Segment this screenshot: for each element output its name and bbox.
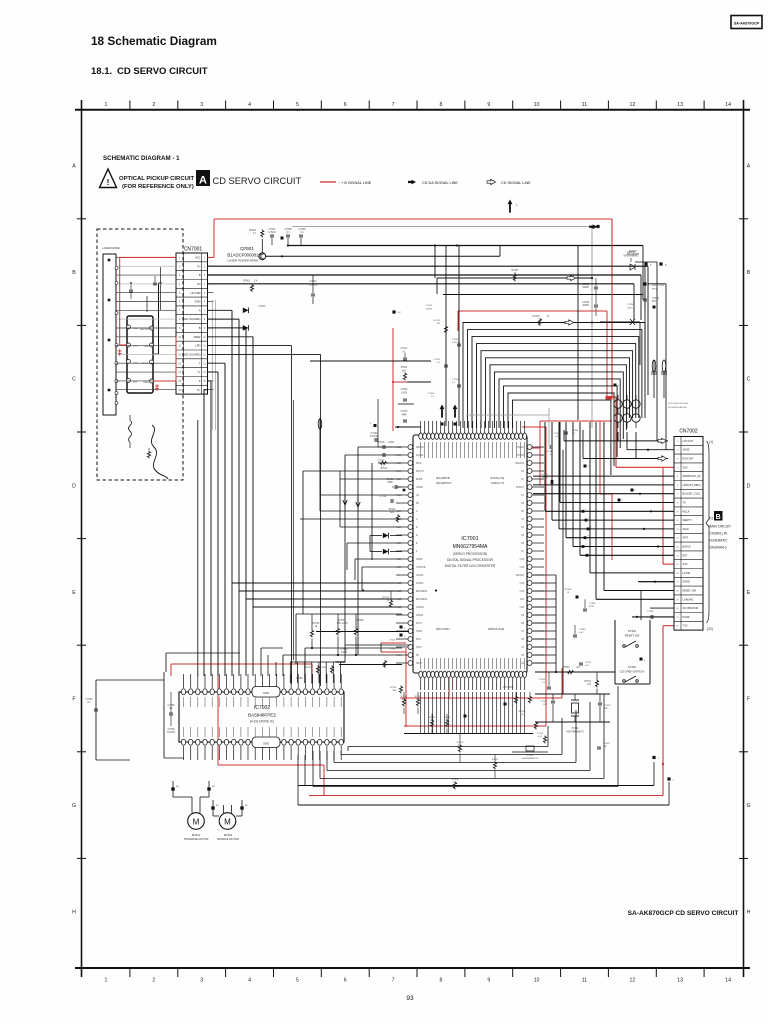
svg-text:C7047: C7047 — [426, 305, 433, 307]
capacitor C7326 — [643, 290, 659, 310]
svg-text:OSCIN: OSCIN — [416, 575, 424, 577]
wire r7207 line — [437, 269, 593, 281]
svg-text:GND: GND — [144, 346, 149, 348]
svg-text:CD SERVO CIRCUIT: CD SERVO CIRCUIT — [117, 66, 208, 77]
svg-text:A: A — [199, 175, 207, 187]
svg-text:C7540: C7540 — [341, 649, 348, 651]
svg-text:1: 1 — [105, 978, 108, 984]
wire Q7601 output line — [266, 244, 500, 257]
svg-text:9: 9 — [487, 102, 490, 108]
svg-text:C7324: C7324 — [627, 304, 634, 306]
red C7544/C7545 — [381, 640, 406, 694]
svg-text:18P: 18P — [604, 708, 608, 710]
svg-text:CD SERVO CIRCUIT: CD SERVO CIRCUIT — [213, 176, 302, 186]
resistor network below chip — [401, 692, 499, 789]
diode D7064 top right — [627, 250, 639, 270]
svg-text:2: 2 — [152, 978, 155, 984]
wire into chip top-left corner — [395, 426, 421, 433]
red mid line — [458, 311, 613, 400]
label CD SERVO CIRCUIT — [213, 176, 302, 186]
svg-text:REGON: REGON — [516, 463, 525, 465]
caps near IC7002 left — [164, 692, 179, 734]
svg-text:470P: 470P — [589, 606, 595, 608]
svg-text:DIGITAL FILTER D/A CONVERTER: DIGITAL FILTER D/A CONVERTER — [445, 564, 496, 568]
svg-text:8: 8 — [439, 978, 442, 984]
svg-text:B: B — [199, 326, 201, 330]
svg-text:LASER POWER DRIVE: LASER POWER DRIVE — [228, 259, 259, 263]
border frame with rulers — [72, 100, 751, 984]
svg-text:VRBP: VRBP — [416, 559, 423, 561]
wire A/B/VREF rows with steps to chip — [208, 306, 403, 676]
svg-text:C7616: C7616 — [310, 281, 317, 283]
svg-text:93: 93 — [406, 995, 414, 1002]
capacitors right of chip — [533, 433, 596, 637]
svg-text:56B: 56B — [392, 690, 396, 692]
svg-text:16V10: 16V10 — [542, 477, 549, 479]
svg-text:R7011: R7011 — [401, 367, 408, 369]
svg-text:C7206: C7206 — [428, 393, 435, 395]
svg-text:G: G — [746, 803, 750, 809]
svg-text:C7359: C7359 — [542, 474, 549, 476]
capacitor C7203 — [370, 433, 379, 442]
svg-text:RESET_SW: RESET_SW — [683, 590, 697, 593]
footer title — [628, 910, 739, 917]
section marker B / to main circuit — [709, 511, 732, 550]
resistor cluster TRV/FO gain — [296, 607, 364, 664]
red loop around IC7002 — [171, 664, 324, 796]
svg-text:3: 3 — [200, 102, 203, 108]
svg-text:TRAVERSE MOTOR: TRAVERSE MOTOR — [184, 837, 209, 841]
svg-text:C7546: C7546 — [389, 649, 396, 651]
svg-text:GND (GUARD): GND (GUARD) — [182, 353, 200, 357]
svg-text:PU: PU — [416, 655, 420, 657]
svg-text:Q7601: Q7601 — [240, 246, 254, 251]
svg-text:1: 1 — [105, 102, 108, 108]
svg-text:M: M — [193, 818, 200, 827]
red bottom bus — [309, 626, 674, 796]
svg-text:RESET SW: RESET SW — [625, 634, 640, 638]
svg-text:C7017: C7017 — [401, 348, 408, 350]
resistor R7601 — [249, 229, 264, 237]
svg-text:CD OPEN SW: CD OPEN SW — [683, 607, 699, 610]
svg-text:R7522: R7522 — [415, 696, 422, 698]
+B red bus top — [214, 219, 674, 564]
svg-text:GND: GND — [263, 691, 269, 695]
red vertical mid right — [404, 427, 546, 726]
svg-text:GND: GND — [263, 742, 269, 746]
svg-text:CTRCKB: CTRCKB — [416, 567, 426, 569]
wire mid horizontals to chip bottom-left — [283, 614, 402, 676]
svg-text:3: 3 — [200, 978, 203, 984]
svg-text:LB1TGH0 LB1TGH0: LB1TGH0 LB1TGH0 — [668, 403, 689, 405]
svg-text:1000P: 1000P — [582, 305, 589, 307]
svg-text:0.018: 0.018 — [401, 393, 407, 395]
svg-text:O13: O13 — [520, 583, 525, 585]
svg-text:DGND: DGND — [683, 581, 690, 584]
svg-text:C7364: C7364 — [554, 433, 561, 435]
svg-text:C7544: C7544 — [389, 640, 396, 642]
page number — [406, 995, 414, 1002]
svg-text:6: 6 — [344, 102, 347, 108]
svg-text:6.3V220: 6.3V220 — [370, 436, 379, 438]
svg-text:C7201: C7201 — [434, 359, 441, 361]
svg-text:CD DA SIGNAL LINE: CD DA SIGNAL LINE — [422, 181, 458, 185]
wire verticals left of chip — [340, 399, 378, 590]
wire nested bottom fan — [313, 686, 618, 787]
svg-text:13: 13 — [677, 102, 683, 108]
svg-text:C7208: C7208 — [582, 302, 589, 304]
wire bottom long buses — [298, 755, 675, 805]
svg-text:B: B — [747, 270, 751, 276]
svg-text:SCHEMATIC: SCHEMATIC — [709, 539, 729, 543]
PD gain cluster — [316, 589, 437, 668]
svg-text:C7514: C7514 — [537, 733, 544, 735]
svg-text:A: A — [747, 164, 751, 170]
svg-text:(SERVO PROCESSOR): (SERVO PROCESSOR) — [453, 552, 487, 556]
svg-text:[39] OVSS1: [39] OVSS1 — [436, 627, 450, 631]
svg-text:R7528: R7528 — [306, 667, 313, 669]
svg-text:R7516: R7516 — [519, 711, 526, 713]
wire crystal bus — [535, 667, 615, 674]
svg-text:VREF: VREF — [193, 335, 201, 339]
svg-text:R7661: R7661 — [243, 281, 250, 283]
pickup flex squiggle — [151, 425, 168, 479]
wire IC7002 upper-left rail — [166, 653, 240, 672]
wire chip-left horizontals — [300, 418, 402, 655]
svg-text:R7012: R7012 — [434, 320, 441, 322]
black square marks row B — [643, 262, 667, 308]
svg-text:A: A — [199, 308, 201, 312]
IC7002 tiny pin labels — [184, 697, 342, 737]
svg-text:B1N CTGEF: B1N CTGEF — [652, 285, 665, 287]
wire LPD row — [208, 346, 304, 684]
red corner join — [600, 421, 612, 560]
svg-text:1000P: 1000P — [426, 309, 433, 311]
svg-text:R7211: R7211 — [389, 509, 396, 511]
svg-text:C7503: C7503 — [603, 743, 610, 745]
wire long verticals into chip top — [435, 246, 578, 427]
svg-text:7: 7 — [392, 978, 395, 984]
capacitor C7606 — [298, 228, 306, 245]
svg-text:1000P: 1000P — [582, 287, 589, 289]
svg-text:4: 4 — [248, 978, 251, 984]
svg-text:CN7002: CN7002 — [679, 429, 698, 435]
svg-text:R7523: R7523 — [401, 696, 408, 698]
svg-text:5.8V: 5.8V — [683, 466, 688, 469]
svg-text:R7534: R7534 — [313, 623, 320, 625]
svg-text:18 Schematic Diagram: 18 Schematic Diagram — [91, 34, 217, 48]
capacitor C7363 in red box — [564, 425, 579, 441]
wire grey top bus — [292, 225, 593, 428]
wire audio rows to CN7002 — [564, 430, 674, 461]
svg-text:PGND: PGND — [683, 616, 690, 619]
svg-text:11: 11 — [582, 978, 587, 984]
red crystal feed — [400, 648, 562, 727]
svg-text:9: 9 — [487, 978, 490, 984]
svg-text:O10: O10 — [520, 607, 525, 609]
svg-text:B: B — [199, 273, 201, 277]
svg-text:HDNTMN08DT3: HDNTMN08DT3 — [566, 731, 584, 734]
svg-text:IC7001: IC7001 — [461, 536, 478, 542]
svg-text:SA-AK870GCP CD SERVO CIRCUIT: SA-AK870GCP CD SERVO CIRCUIT — [628, 910, 739, 917]
pickup internal verticals — [122, 267, 162, 363]
svg-text:R7346: R7346 — [565, 589, 572, 591]
svg-text:C7368: C7368 — [579, 629, 586, 631]
resistor R7514 — [584, 672, 598, 694]
components on +B verticals — [428, 320, 461, 398]
svg-text:: + B SIGNAL LINE: : + B SIGNAL LINE — [339, 181, 372, 185]
svg-text:MECLKP: MECLKP — [140, 329, 150, 331]
svg-text:LD GND: LD GND — [190, 291, 200, 295]
legend: CD signal line — [487, 179, 531, 185]
svg-text:W7EOT: W7EOT — [516, 487, 525, 489]
capacitor C7512 — [579, 662, 592, 667]
svg-text:D: D — [72, 483, 76, 489]
photodetector IC in pickup — [127, 316, 154, 393]
svg-text:R7525: R7525 — [429, 717, 436, 719]
capacitor C7064 — [401, 389, 408, 401]
svg-text:AGND: AGND — [683, 449, 690, 452]
capacitor C7074 — [401, 411, 408, 422]
svg-text:DRVMEN2: DRVMEN2 — [416, 599, 428, 601]
svg-text:O16: O16 — [520, 567, 525, 569]
svg-text:RCH OUT: RCH OUT — [683, 458, 695, 461]
svg-text:10V220: 10V220 — [167, 732, 176, 734]
svg-text:VCC: VCC — [195, 256, 201, 260]
svg-text:R7520: R7520 — [563, 667, 570, 669]
svg-text:E: E — [747, 590, 751, 596]
svg-text:330P: 330P — [387, 482, 393, 484]
svg-text:CD SIGNAL LINE: CD SIGNAL LINE — [501, 181, 531, 185]
svg-text:R7502: R7502 — [492, 759, 499, 761]
svg-text:DRVMEN0: DRVMEN0 — [416, 591, 428, 593]
svg-text:OVSS2 [76]: OVSS2 [76] — [490, 476, 504, 480]
svg-text:DIGITAL SIGNAL PROCESSOR: DIGITAL SIGNAL PROCESSOR — [447, 558, 493, 562]
svg-text:MAIN CIRCUIT: MAIN CIRCUIT — [709, 525, 732, 529]
node junction marks top right — [589, 224, 599, 229]
top right cluster — [600, 246, 667, 399]
svg-text:!: ! — [107, 178, 110, 187]
capacitor C7017 — [401, 348, 408, 360]
svg-text:C7074: C7074 — [401, 411, 408, 413]
switch ST302 cd open switch — [620, 658, 646, 683]
svg-text:[30] ARPFB: [30] ARPFB — [436, 476, 450, 480]
svg-text:2: 2 — [152, 102, 155, 108]
svg-text:H: H — [747, 910, 751, 916]
svg-text:SPINDLE MOTOR: SPINDLE MOTOR — [217, 837, 239, 841]
svg-text:DIV33RGELACI0B: DIV33RGELACI0B — [668, 406, 687, 409]
small parts row at chip left — [370, 423, 377, 427]
motor M7002 spindle — [217, 805, 239, 841]
svg-text:3.3V: 3.3V — [683, 563, 688, 566]
svg-text:XRST: XRST — [416, 663, 423, 665]
IC IC7001 MN6627954MA servo processor — [396, 421, 544, 690]
svg-text:VALD: VALD — [683, 528, 689, 531]
wires pickup to CN7001 — [116, 257, 176, 389]
IC IC7002 BA5948FPE2 driver — [179, 674, 344, 760]
svg-text:50V1: 50V1 — [627, 308, 633, 310]
svg-text:OVDD1: OVDD1 — [416, 607, 425, 609]
svg-text:TX: TX — [683, 502, 686, 505]
svg-text:R7519: R7519 — [457, 742, 464, 744]
motor terminal marks — [171, 781, 248, 816]
wire right edge verticals — [635, 262, 666, 450]
svg-text:12: 12 — [630, 102, 636, 108]
svg-text:C7522: C7522 — [541, 701, 548, 703]
svg-text:5: 5 — [296, 978, 299, 984]
svg-text:SCHEMATIC DIAGRAM - 1: SCHEMATIC DIAGRAM - 1 — [103, 155, 180, 162]
+B arrow top — [508, 200, 518, 213]
svg-text:R7012: R7012 — [381, 468, 388, 470]
IC7001 left pin external labels — [398, 447, 544, 665]
svg-text:LD SW: LD SW — [683, 572, 691, 575]
svg-text:C7366: C7366 — [589, 603, 596, 605]
svg-text:10: 10 — [534, 978, 540, 984]
svg-text:R7536: R7536 — [390, 687, 397, 689]
svg-text:6: 6 — [344, 978, 347, 984]
svg-text:CD OPEN SWITCH: CD OPEN SWITCH — [620, 670, 645, 674]
capacitor C7208 — [582, 294, 598, 316]
svg-text:C7613: C7613 — [259, 306, 266, 308]
svg-text:18.1.: 18.1. — [91, 66, 112, 77]
transistor Q7601 laser power drive — [227, 239, 265, 263]
svg-text:E: E — [72, 590, 76, 596]
PD GAIN resistors right of IC7002 — [503, 686, 546, 743]
red box near chip top — [532, 421, 600, 485]
svg-text:PHG: PHG — [416, 639, 421, 641]
wire nested bus above IC7001 — [463, 316, 645, 475]
svg-text:AVSS2: AVSS2 — [416, 582, 424, 585]
svg-text:(FOR REFERENCE ONLY): (FOR REFERENCE ONLY) — [122, 184, 194, 190]
capacitor C7607 — [268, 228, 276, 245]
svg-text:BDRCK [100]: BDRCK [100] — [488, 627, 504, 631]
svg-text:R7508: R7508 — [452, 779, 459, 781]
svg-text:BLRCK: BLRCK — [683, 546, 692, 549]
svg-text:B: B — [716, 514, 721, 521]
wire left frame of IC7002 — [86, 672, 240, 760]
svg-text:C7538: C7538 — [168, 705, 175, 707]
svg-text:5: 5 — [296, 102, 299, 108]
svg-text:RST: RST — [683, 554, 688, 557]
svg-text:B1ADCF000001: B1ADCF000001 — [227, 253, 259, 258]
connector CN7001 — [176, 247, 208, 395]
capacitor C7047 — [378, 305, 433, 463]
chip right pin stubs — [533, 450, 563, 694]
svg-text:WCLK: WCLK — [683, 510, 690, 513]
svg-text:C7205: C7205 — [452, 379, 459, 381]
svg-text:B: B — [72, 270, 76, 276]
svg-text:LRCK(ST_RBO): LRCK(ST_RBO) — [683, 484, 701, 487]
wire chip bottom pin drops — [404, 692, 533, 734]
svg-text:R7527: R7527 — [339, 620, 346, 622]
svg-text:14: 14 — [725, 978, 731, 984]
svg-text:8: 8 — [439, 102, 442, 108]
svg-text:C7536: C7536 — [168, 729, 175, 731]
svg-text:FOCT: FOCT — [416, 623, 423, 625]
svg-text:12: 12 — [630, 978, 636, 984]
svg-text:IODD2: IODD2 — [416, 615, 424, 617]
svg-text:XT501: XT501 — [527, 755, 534, 757]
motor M7001 traverse — [184, 805, 209, 841]
switch ST301 reset sw — [615, 620, 650, 684]
svg-text:VREF: VREF — [143, 382, 149, 384]
wire T row long — [208, 354, 321, 686]
svg-text:TEST: TEST — [416, 647, 422, 649]
caps at col 12 lower — [512, 672, 610, 760]
svg-text:RFIN: RFIN — [416, 463, 422, 465]
svg-text:R7514: R7514 — [584, 681, 591, 683]
svg-text:LPD: LPD — [195, 344, 200, 348]
svg-text:ARPSC: ARPSC — [416, 446, 424, 449]
pickup laser diode box — [103, 254, 118, 415]
svg-text:DRN64: DRN64 — [627, 252, 635, 254]
svg-text:R7210: R7210 — [533, 316, 540, 318]
svg-text:G: G — [72, 803, 76, 809]
model box SA-AK870GCP top right — [731, 16, 762, 29]
svg-text:RFRB: RFRB — [416, 479, 423, 481]
pickup coil — [129, 415, 132, 448]
wire data rows to CN7002 — [533, 422, 674, 620]
svg-text:F: F — [72, 697, 75, 703]
red chip-left entries — [392, 328, 407, 431]
svg-text:448P: 448P — [401, 415, 407, 417]
svg-text:MA2NHMMAL: MA2NHMMAL — [624, 255, 639, 258]
svg-text:C7142: C7142 — [380, 496, 387, 498]
svg-text:C7064: C7064 — [401, 389, 408, 391]
resistor R7211 — [389, 509, 400, 522]
svg-text:O11: O11 — [520, 599, 525, 601]
svg-text:M7001: M7001 — [192, 833, 201, 837]
svg-text:HGNTMN08DT3: HGNTMN08DT3 — [522, 758, 539, 760]
svg-text:C7512: C7512 — [585, 662, 592, 664]
resistor R7011 — [401, 367, 408, 380]
pickup small parts — [129, 276, 157, 458]
label SCHEMATIC DIAGRAM - 1 — [103, 155, 180, 162]
svg-text:R7512: R7512 — [383, 597, 390, 599]
svg-text:7.5V: 7.5V — [683, 625, 688, 628]
svg-text:PD: PD — [416, 503, 420, 505]
wire black top bus — [281, 237, 609, 247]
svg-text:M7002: M7002 — [224, 833, 233, 837]
svg-text:O15: O15 — [520, 559, 525, 561]
svg-text:P+: P+ — [197, 388, 201, 392]
CN7001 right stubs — [208, 257, 214, 389]
svg-text:C7363: C7363 — [572, 430, 579, 432]
warning triangle — [100, 169, 117, 188]
svg-text:OPTICAL PICKUP CIRCUIT: OPTICAL PICKUP CIRCUIT — [119, 176, 194, 182]
svg-text:C7162: C7162 — [387, 479, 394, 481]
svg-text:C7047: C7047 — [378, 461, 385, 463]
svg-text:LOADING: LOADING — [683, 598, 694, 601]
svg-text:T+: T+ — [197, 370, 201, 374]
laser diode label — [102, 246, 120, 250]
resistor R7012 — [380, 461, 389, 470]
svg-text:WENTH: WENTH — [683, 519, 692, 522]
svg-text:CSRW: CSRW — [416, 487, 424, 489]
capacitor C7162 — [387, 479, 406, 491]
wire IC7002 top-right pins up to bus — [290, 645, 410, 683]
svg-text:AVSS2: AVSS2 — [416, 454, 424, 457]
svg-text:TO: TO — [709, 517, 714, 521]
jump marks mid right — [464, 384, 637, 719]
legend: +B signal line — [320, 181, 372, 185]
svg-text:LASER DIODE: LASER DIODE — [102, 246, 120, 250]
svg-text:(1): (1) — [709, 440, 713, 444]
svg-text:14: 14 — [725, 102, 731, 108]
wire CN7001 bottom rows down to IC7002 — [197, 266, 225, 676]
wires at chip top-left — [310, 310, 431, 404]
svg-text:F: F — [747, 697, 750, 703]
